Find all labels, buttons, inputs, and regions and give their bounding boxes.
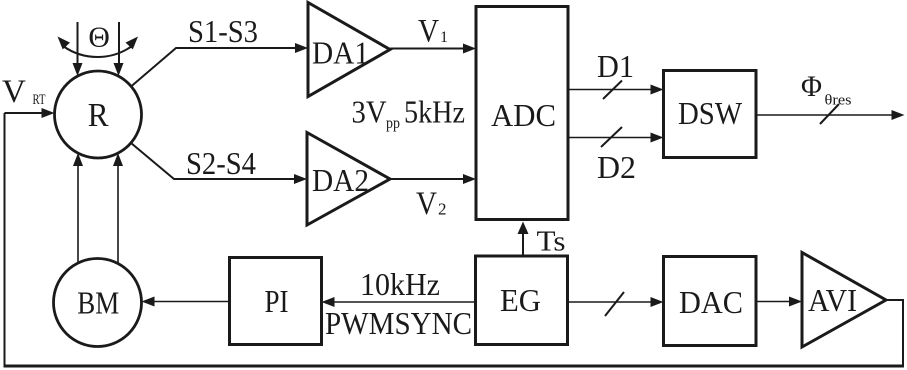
wire AVI feedback right — [886, 300, 903, 366]
wire DAC to AVI — [756, 301, 790, 303]
motor BM — [54, 259, 142, 347]
wire Vrt input — [5, 112, 44, 114]
bus slash D2 — [601, 127, 622, 147]
svg-text:Ts: Ts — [537, 227, 566, 258]
theta shaft line left — [77, 22, 79, 64]
svg-text:V: V — [2, 74, 26, 110]
wire D2 — [568, 137, 652, 139]
svg-text:2: 2 — [438, 200, 447, 219]
svg-text:1: 1 — [440, 29, 448, 46]
svg-text:3V: 3V — [352, 94, 387, 130]
block EG — [476, 256, 568, 345]
svg-text:10kHz: 10kHz — [360, 266, 440, 302]
wire D1 — [568, 89, 652, 91]
wire EG to DAC — [568, 301, 652, 303]
wire S2-S4 — [131, 143, 295, 179]
wire feedback left — [4, 113, 6, 367]
bus slash EG-DAC — [605, 292, 624, 316]
wire DA1 to ADC — [390, 48, 464, 50]
svg-text:PI: PI — [265, 283, 289, 319]
bus slash output — [820, 104, 839, 124]
rotation arc — [63, 46, 132, 57]
svg-text:V: V — [418, 14, 439, 50]
svg-text:DA1: DA1 — [312, 35, 369, 71]
svg-text:5kHz: 5kHz — [404, 94, 465, 130]
svg-text:DAC: DAC — [679, 284, 743, 320]
amplifier DA1 — [308, 3, 390, 97]
wire PI to BM — [154, 301, 230, 303]
amplifier AVI — [802, 253, 886, 348]
wire EG to PI — [334, 301, 476, 303]
svg-text:R: R — [88, 97, 109, 134]
svg-text:AVI: AVI — [808, 282, 857, 318]
svg-text:RT: RT — [33, 92, 46, 108]
wire feedback bottom — [4, 365, 905, 368]
svg-text:EG: EG — [500, 282, 541, 318]
svg-text:DA2: DA2 — [312, 162, 369, 198]
svg-text:V: V — [416, 186, 437, 222]
block DSW — [664, 71, 757, 158]
block PI — [230, 258, 322, 345]
svg-text:S2-S4: S2-S4 — [186, 145, 256, 181]
svg-text:PWMSYNC: PWMSYNC — [325, 305, 472, 341]
bus slash D1 — [603, 81, 622, 100]
block DAC — [664, 257, 757, 346]
svg-text:S1-S3: S1-S3 — [188, 13, 258, 49]
svg-text:Φ: Φ — [801, 70, 822, 103]
wire BM to R right — [117, 166, 119, 264]
amplifier DA2 — [307, 133, 390, 226]
theta shaft line right — [118, 22, 120, 64]
wire BM to R left — [77, 166, 79, 264]
svg-text:pp: pp — [386, 115, 400, 132]
svg-text:θres: θres — [825, 93, 852, 109]
svg-text:D2: D2 — [597, 149, 636, 185]
resolver R — [55, 71, 142, 158]
wire DSW output — [756, 114, 892, 116]
svg-text:ADC: ADC — [491, 97, 556, 133]
block ADC — [476, 7, 568, 220]
svg-text:D1: D1 — [597, 48, 634, 84]
wire DA2 to ADC — [390, 178, 464, 180]
svg-text:BM: BM — [77, 285, 119, 321]
svg-text:DSW: DSW — [678, 95, 743, 131]
wire S1-S3 — [131, 48, 296, 87]
svg-text:Θ: Θ — [88, 23, 110, 54]
wire Ts — [522, 233, 524, 256]
